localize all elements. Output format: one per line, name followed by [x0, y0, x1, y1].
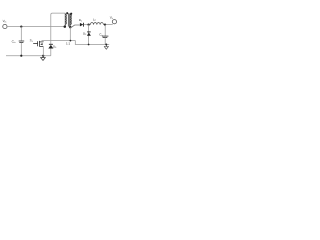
- background: [0, 0, 120, 69]
- node junction secondary-return-rail: [70, 40, 72, 42]
- wire D2 column: [88, 25, 90, 45]
- wire bottom rail primary: [6, 55, 51, 57]
- node junction secondary-bottom: [69, 26, 71, 28]
- wire S1 drain: [42, 41, 44, 42]
- transistor S1 body arrow: [40, 43, 42, 45]
- wire Co column upper: [104, 25, 106, 36]
- diode D3: [49, 43, 53, 45]
- wire Co column lower: [104, 38, 106, 45]
- node junction Cin tap: [20, 26, 22, 28]
- wire Cin column lower: [20, 43, 22, 56]
- node junction Cin-rail: [20, 55, 22, 57]
- wire D3 to rail: [50, 49, 52, 56]
- wire Lo to output: [103, 24, 112, 26]
- wire input top: [7, 26, 65, 28]
- wire S1 source: [42, 46, 44, 55]
- wire secondary to D1: [71, 25, 80, 28]
- capacitor Cin: [19, 41, 25, 42]
- ground secondary: [104, 45, 108, 50]
- polarity dot primary: [66, 12, 68, 14]
- terminal Vo: [112, 20, 116, 24]
- ground primary: [41, 56, 46, 60]
- polarity dot secondary: [70, 13, 72, 15]
- node junction S1-rail: [42, 55, 44, 57]
- diode D2: [87, 31, 91, 33]
- node junction D2-rail: [88, 44, 90, 46]
- node junction D2 tap: [87, 23, 89, 25]
- terminal Vin: [3, 24, 7, 28]
- transformer T1 primary winding: [65, 13, 66, 26]
- node junction primary-bottom: [64, 25, 67, 28]
- inductor Lo: [90, 23, 103, 25]
- wire Cin column upper: [20, 27, 22, 41]
- wire primary top loop: [51, 13, 65, 44]
- wire D1 cathode: [84, 24, 91, 26]
- transformer T1 core: [67, 13, 70, 26]
- node junction ground-rail: [105, 44, 107, 46]
- wire secondary return: [69, 27, 71, 40]
- svg-text:1:1: 1:1: [66, 41, 71, 45]
- capacitor Co: [102, 36, 109, 37]
- diode D1: [80, 23, 83, 27]
- transformer T1 secondary winding: [70, 14, 71, 28]
- node junction Co tap: [104, 24, 106, 26]
- wire drain node horizontal: [42, 41, 110, 45]
- transistor S1 MOSFET: [33, 41, 43, 47]
